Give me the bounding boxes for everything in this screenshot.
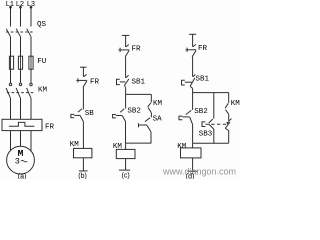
svg-text:SB: SB bbox=[85, 110, 95, 118]
svg-text:SB1: SB1 bbox=[196, 75, 210, 83]
svg-text:L3: L3 bbox=[27, 1, 35, 9]
svg-text:SB2: SB2 bbox=[194, 108, 208, 116]
svg-text:SB2: SB2 bbox=[127, 108, 141, 116]
svg-text:KM: KM bbox=[70, 141, 80, 149]
svg-text:L1: L1 bbox=[6, 1, 14, 9]
svg-text:KM: KM bbox=[38, 87, 48, 95]
svg-text:SB1: SB1 bbox=[132, 78, 146, 86]
svg-text:(c): (c) bbox=[122, 173, 130, 179]
svg-text:KM: KM bbox=[231, 100, 240, 108]
svg-text:FU: FU bbox=[37, 58, 46, 66]
svg-text:3: 3 bbox=[15, 157, 20, 167]
svg-text:FR: FR bbox=[45, 123, 55, 131]
svg-text:(d): (d) bbox=[186, 174, 195, 180]
svg-text:KM: KM bbox=[177, 143, 187, 151]
svg-text:(a): (a) bbox=[18, 174, 27, 180]
svg-text:KM: KM bbox=[153, 100, 163, 108]
svg-text:L2: L2 bbox=[16, 1, 24, 9]
svg-text:KM: KM bbox=[113, 143, 123, 151]
svg-text:(b): (b) bbox=[78, 173, 87, 179]
svg-text:SB3: SB3 bbox=[199, 130, 213, 138]
svg-text:FR: FR bbox=[132, 45, 142, 53]
svg-text:QS: QS bbox=[37, 21, 47, 29]
svg-text:www.diangon.com: www.diangon.com bbox=[162, 166, 236, 176]
svg-text:FR: FR bbox=[90, 79, 100, 87]
svg-text:SA: SA bbox=[153, 116, 163, 124]
svg-text:FR: FR bbox=[198, 45, 208, 53]
